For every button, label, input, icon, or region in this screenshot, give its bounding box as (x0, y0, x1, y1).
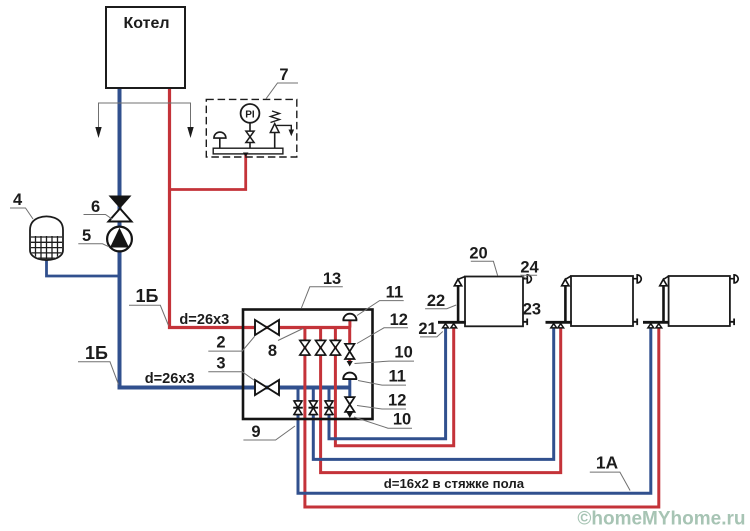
valve 12 (supply safety outlet) (348, 328, 351, 362)
svg-text:6: 6 (91, 198, 100, 216)
svg-text:12: 12 (388, 391, 406, 409)
radiator 1 riser 22 with flow arrow (457, 286, 460, 323)
radiator 1 drain plug 23 (523, 319, 527, 326)
svg-text:13: 13 (323, 270, 341, 288)
pump P5 (107, 227, 132, 252)
svg-text:20: 20 (469, 245, 487, 263)
valve 12 (return safety outlet) (348, 388, 351, 414)
svg-text:10: 10 (394, 343, 412, 361)
svg-text:d=16x2 в стяжке пола: d=16x2 в стяжке пола (384, 476, 525, 491)
valve V6 on return (109, 196, 132, 209)
wire blue branch 1 (manifold to radiator 1) (329, 325, 446, 439)
manifold bar inside box 7 (213, 148, 283, 154)
air vent dome (supply manifold) (348, 320, 351, 327)
safety group box U7 (dashed) (206, 99, 296, 157)
radiator 1 bottom bar with valves 21 (438, 321, 466, 324)
svg-text:Котел: Котел (123, 15, 169, 32)
wire expansion tank connection to blue main (47, 258, 119, 276)
drain stub under box 7 bar (243, 153, 249, 157)
svg-text:10: 10 (393, 410, 411, 428)
svg-text:23: 23 (523, 301, 541, 319)
svg-text:d=26x3: d=26x3 (179, 312, 229, 328)
air vent in box 7 (219, 138, 221, 148)
flow direction bracket with two arrows below boiler (99, 103, 191, 129)
wire red from safety group box 7 down joining red main (170, 151, 246, 190)
svg-text:2: 2 (216, 334, 225, 352)
svg-text:d=26x3: d=26x3 (145, 371, 195, 387)
safety valve with spring in box 7 (274, 132, 276, 148)
svg-text:1Б: 1Б (136, 286, 159, 306)
gauge valve in box 7 (246, 131, 254, 137)
svg-text:12: 12 (390, 311, 408, 329)
radiator 3 (669, 276, 730, 326)
valves 9 (three return loop valves) (293, 401, 334, 415)
drain arrow 10 (supply) (347, 361, 353, 367)
radiator 20 (first) (465, 277, 523, 327)
radiator 2 top plug (633, 278, 637, 280)
svg-text:4: 4 (13, 191, 23, 209)
expansion tank T4 (30, 216, 63, 260)
wire blue branch 2 (manifold to radiator 2) (313, 325, 553, 460)
radiator 1 top plug 24 (523, 278, 527, 280)
boiler (106, 7, 185, 88)
radiator 3 top plug (730, 278, 734, 280)
svg-text:1А: 1А (596, 453, 619, 473)
wire blue main: boiler return down through valve/pump to manifold (120, 88, 351, 388)
radiator 2 drain plug (633, 319, 637, 326)
valves 8 (three supply loop valves) (300, 340, 341, 355)
pressure gauge PI (241, 104, 260, 123)
drain arrow 10 (return) (347, 413, 353, 419)
svg-text:3: 3 (216, 355, 225, 373)
svg-text:8: 8 (268, 342, 277, 360)
radiator 2 (571, 276, 633, 326)
svg-text:5: 5 (82, 227, 91, 245)
radiator 3 riser with flow arrow (662, 286, 665, 323)
valve V2 supply shut-off (255, 320, 267, 335)
wire red branch 3 (manifold to radiator 3) (305, 325, 659, 508)
radiator 2 riser with flow arrow (564, 286, 567, 323)
svg-text:11: 11 (388, 367, 405, 385)
air vent dome (return manifold) (348, 379, 351, 387)
wire blue branch 3 (manifold to radiator 3) (298, 325, 651, 494)
svg-text:9: 9 (251, 423, 260, 441)
wire red main: boiler supply down then right into manifold (170, 88, 351, 328)
radiator 3 bottom bar with valves (643, 321, 669, 324)
svg-text:©homeMYhome.ru: ©homeMYhome.ru (577, 509, 745, 530)
svg-text:PI: PI (245, 109, 255, 120)
manifold cabinet box 13 (243, 310, 373, 420)
radiator 3 drain plug (730, 319, 734, 326)
svg-text:11: 11 (386, 284, 403, 302)
svg-text:7: 7 (279, 66, 288, 84)
wire red branch 2 (manifold to radiator 2) (321, 325, 561, 473)
svg-text:22: 22 (427, 292, 445, 310)
wire red branch 1 (manifold to radiator 1) (335, 325, 453, 446)
svg-text:21: 21 (418, 320, 436, 338)
radiator 2 bottom bar with valves (546, 321, 572, 324)
valve V3 return shut-off (255, 380, 267, 395)
svg-text:1Б: 1Б (85, 343, 108, 363)
svg-text:24: 24 (520, 258, 539, 276)
